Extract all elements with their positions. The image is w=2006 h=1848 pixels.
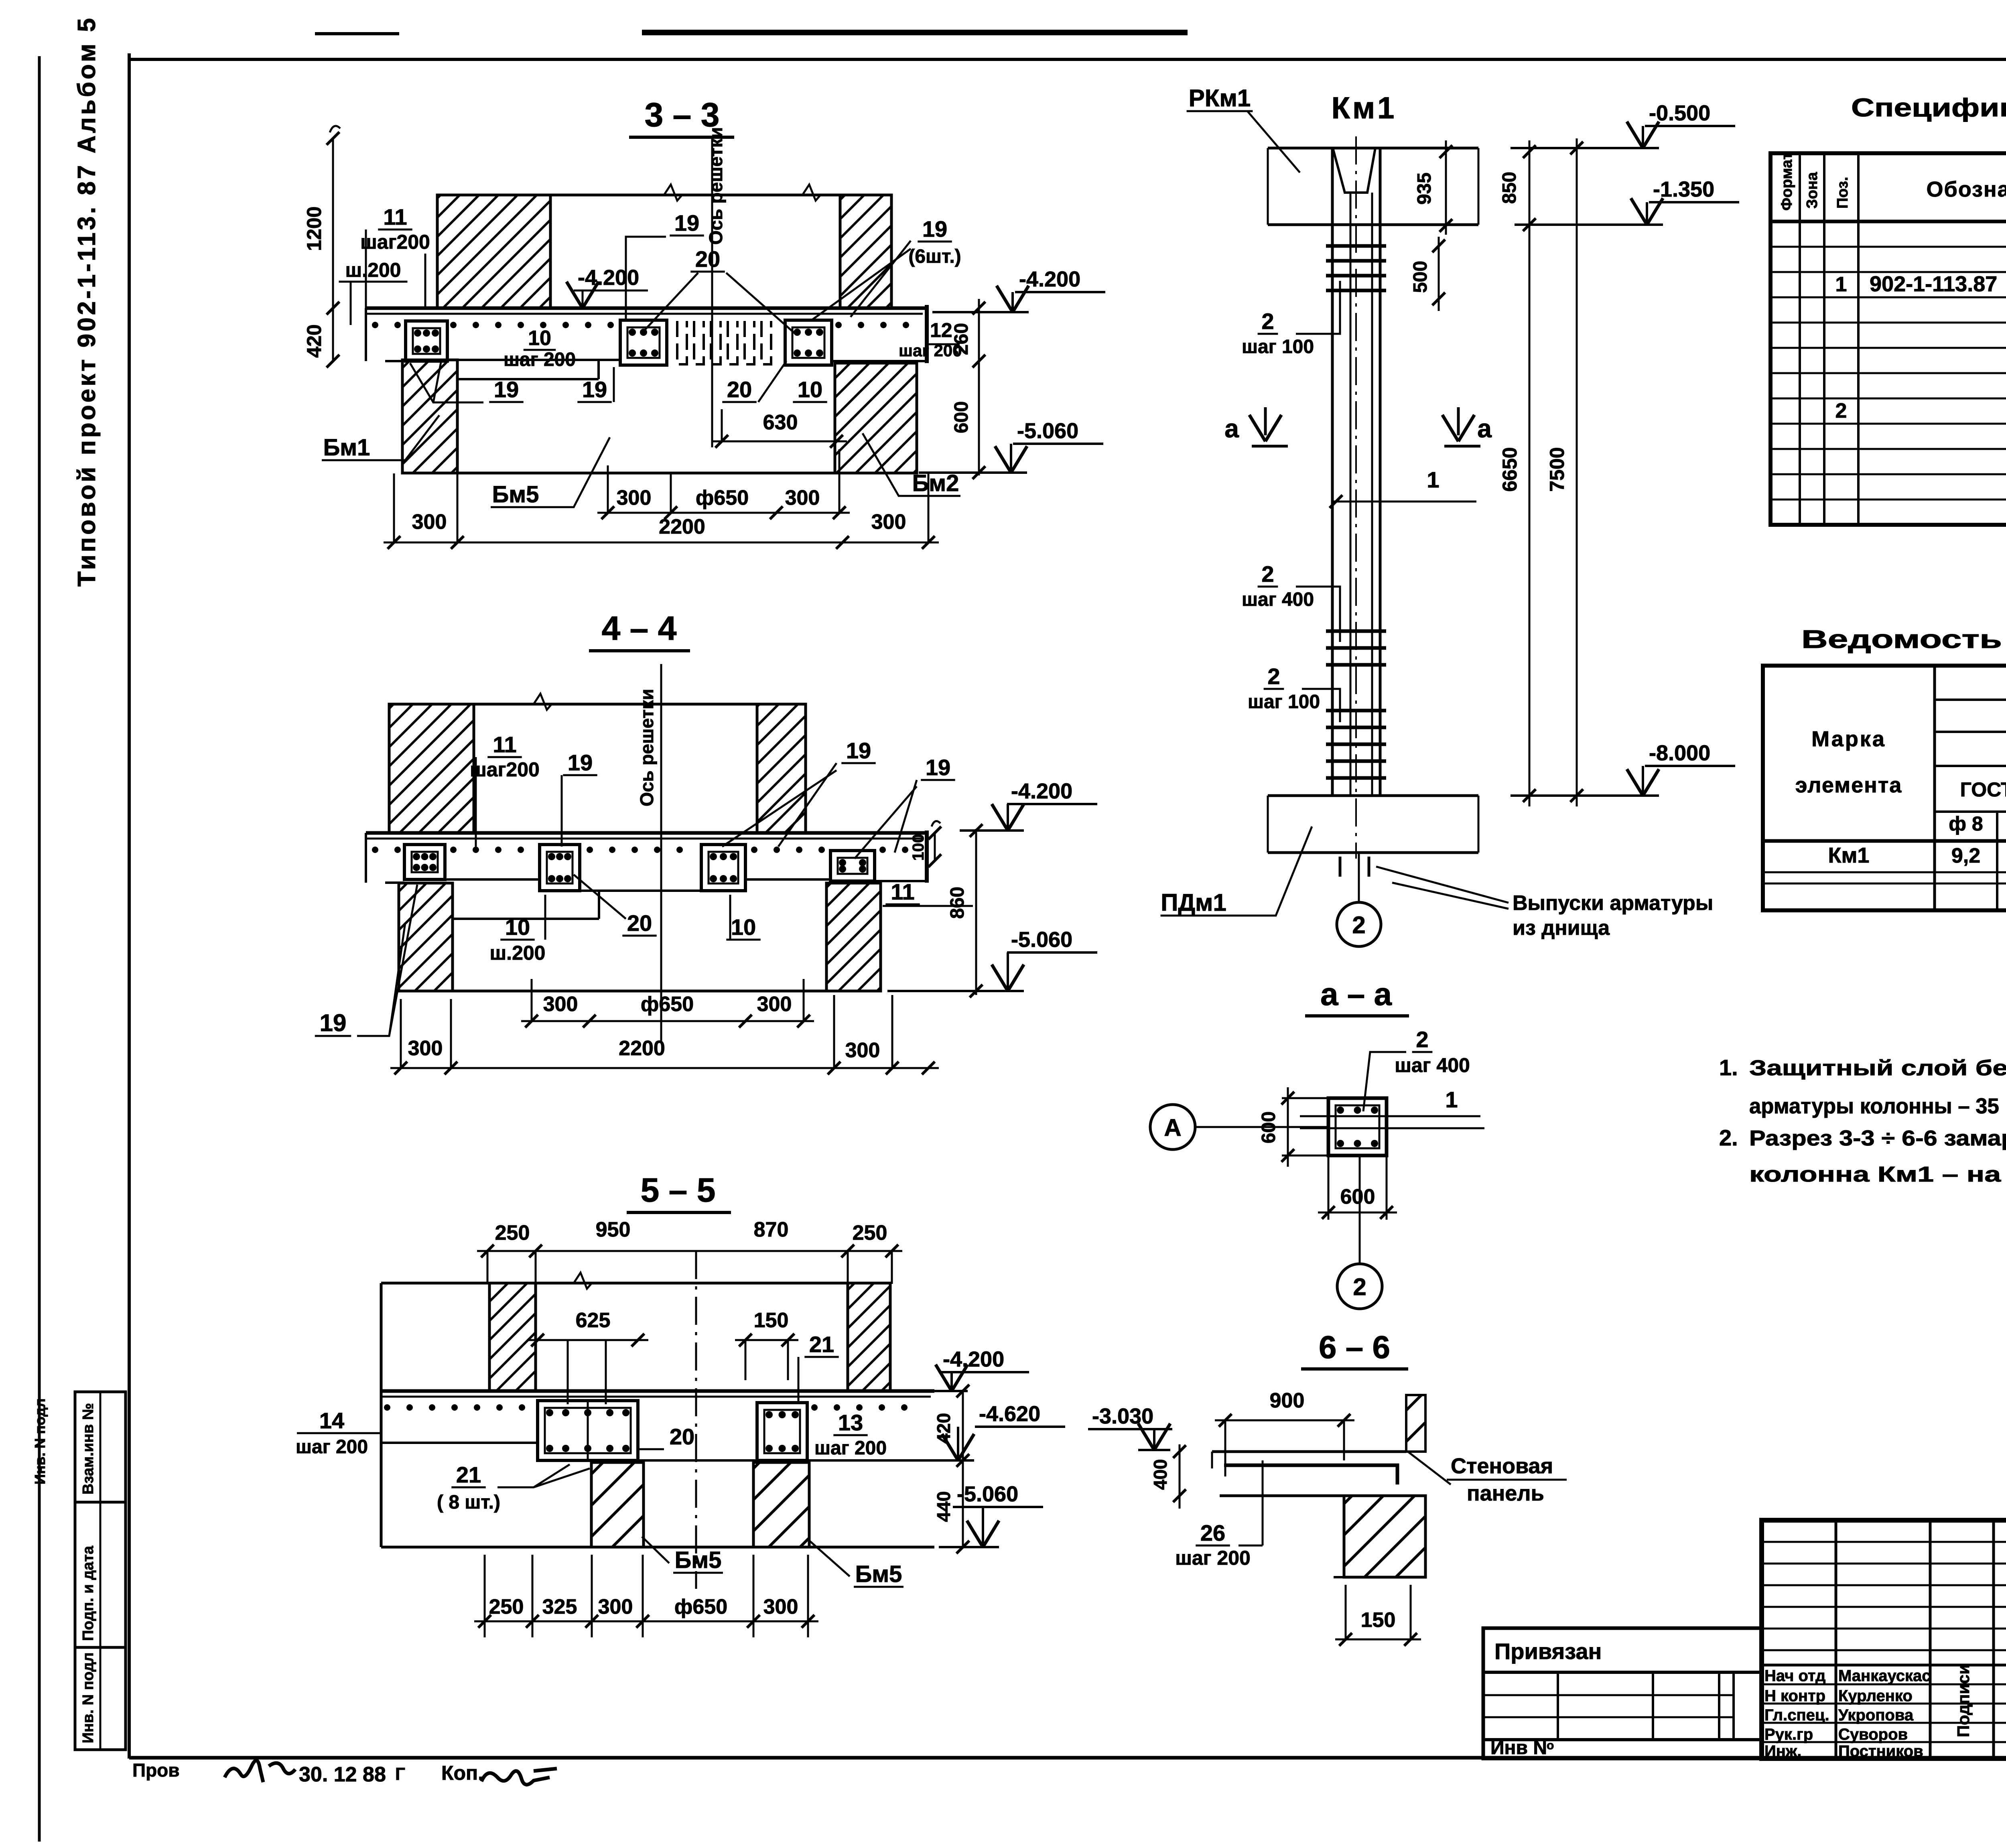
- svg-text:20: 20: [695, 246, 720, 272]
- svg-text:Постников: Постников: [1838, 1742, 1923, 1760]
- svg-text:420: 420: [303, 324, 325, 357]
- svg-text:300: 300: [598, 1595, 633, 1619]
- svg-text:950: 950: [596, 1218, 631, 1241]
- bottom slab: [1268, 794, 1478, 797]
- svg-text:300: 300: [412, 510, 447, 534]
- slab rebar dots: [372, 322, 378, 328]
- svg-text:ф 8: ф 8: [1949, 812, 1983, 835]
- svg-text:300: 300: [408, 1037, 443, 1060]
- right wall pier hatch: [757, 704, 806, 833]
- svg-text:10: 10: [798, 377, 822, 402]
- svg-text:1200: 1200: [303, 206, 325, 251]
- svg-text:Ведомость: Ведомость: [1801, 625, 2002, 654]
- svg-text:10: 10: [505, 914, 530, 940]
- svg-text:150: 150: [754, 1309, 789, 1332]
- svg-text:Бм2: Бм2: [912, 470, 959, 496]
- svg-text:панель: панель: [1467, 1481, 1544, 1505]
- lower support hatches: [399, 883, 453, 991]
- axis lines through square: [1300, 1115, 1480, 1117]
- svg-text:Стеновая: Стеновая: [1451, 1454, 1553, 1478]
- svg-text:1: 1: [1835, 273, 1847, 296]
- column cross-section square: [1328, 1098, 1387, 1156]
- slab top chord: [366, 307, 927, 310]
- svg-text:шаг 400: шаг 400: [1395, 1054, 1470, 1076]
- upper pier hatches: [489, 1283, 536, 1391]
- svg-text:ф650: ф650: [674, 1595, 727, 1619]
- svg-text:600: 600: [951, 401, 972, 433]
- lower support left hatch: [402, 360, 457, 473]
- title block outer: [1762, 1520, 2006, 1759]
- svg-text:А: А: [1164, 1114, 1181, 1141]
- grate slot dashed bars: [677, 321, 687, 364]
- svg-text:20: 20: [727, 377, 752, 402]
- stirrup cage left: [406, 321, 447, 361]
- column body: [1331, 148, 1334, 796]
- drawing frame: [128, 53, 131, 1759]
- svg-text:21: 21: [456, 1462, 481, 1487]
- svg-text:5 – 5: 5 – 5: [641, 1171, 716, 1209]
- svg-text:шаг 200: шаг 200: [1175, 1547, 1251, 1569]
- svg-text:6 – 6: 6 – 6: [1319, 1329, 1390, 1365]
- svg-text:Зона: Зона: [1804, 172, 1821, 209]
- svg-text:шаг 400: шаг 400: [1242, 589, 1314, 610]
- svg-text:( 8 шт.): ( 8 шт.): [437, 1492, 500, 1513]
- svg-text:20: 20: [627, 910, 652, 936]
- axis line: Ось решетки: [711, 138, 713, 447]
- svg-text:900: 900: [1270, 1389, 1305, 1412]
- slab bottom segments: [385, 881, 404, 884]
- svg-text:Спецификация: Спецификация: [1851, 93, 2006, 122]
- svg-text:Привязан: Привязан: [1494, 1639, 1602, 1664]
- svg-text:2200: 2200: [619, 1037, 665, 1060]
- svg-text:625: 625: [576, 1309, 611, 1332]
- left wall pier hatch: [437, 195, 550, 308]
- svg-text:150: 150: [1361, 1608, 1396, 1632]
- top slab: [1268, 147, 1478, 150]
- break marks on top edge: [664, 185, 682, 201]
- svg-text:300: 300: [785, 486, 820, 510]
- wall above slab hatch: [1406, 1395, 1425, 1452]
- svg-text:из днища: из днища: [1513, 916, 1610, 940]
- bottom edge: [402, 472, 917, 475]
- circle 2 below: [1359, 1156, 1361, 1264]
- margin stamp boxes: [75, 1392, 126, 1502]
- svg-text:11: 11: [383, 204, 407, 229]
- inner step lines: [457, 378, 599, 380]
- svg-text:6650: 6650: [1498, 447, 1521, 491]
- svg-text:Бм5: Бм5: [492, 481, 539, 508]
- lower support right hatch: [835, 363, 917, 473]
- svg-text:2: 2: [1352, 912, 1365, 938]
- svg-text:-5.060: -5.060: [1017, 419, 1078, 443]
- circle A: [1150, 1105, 1195, 1149]
- svg-text:2: 2: [1835, 399, 1847, 422]
- slab chord: [366, 831, 927, 835]
- slab bottom edges: [385, 360, 406, 362]
- svg-text:Коп.: Коп.: [441, 1762, 483, 1784]
- dim 400: [1179, 1444, 1181, 1509]
- svg-text:шаг 100: шаг 100: [1242, 336, 1314, 357]
- svg-text:Укропова: Укропова: [1838, 1706, 1914, 1724]
- steel table grid: [1763, 666, 2006, 910]
- svg-text:935: 935: [1414, 173, 1435, 205]
- dim 860: [975, 829, 977, 995]
- svg-text:Обозначение: Обозначение: [1926, 177, 2006, 201]
- svg-text:19: 19: [494, 377, 519, 402]
- svg-text:19: 19: [320, 1009, 347, 1036]
- svg-text:Ось решетки: Ось решетки: [705, 127, 726, 245]
- rebar with hook: [1224, 1465, 1397, 1484]
- svg-text:Инж.: Инж.: [1764, 1742, 1801, 1760]
- svg-text:Подп. и дата: Подп. и дата: [80, 1545, 97, 1641]
- rebar stubs below slab: [1339, 857, 1342, 877]
- wall below slab hatch: [1344, 1496, 1425, 1577]
- svg-text:Марка: Марка: [1811, 727, 1886, 751]
- svg-text:Выпуски арматуры: Выпуски арматуры: [1513, 892, 1713, 915]
- svg-text:2: 2: [1261, 561, 1274, 587]
- svg-text:Ось решетки: Ось решетки: [636, 689, 657, 806]
- svg-text:Инв. N подл: Инв. N подл: [32, 1398, 48, 1484]
- svg-text:19: 19: [582, 377, 607, 402]
- axis vertical: [695, 1251, 697, 1589]
- svg-text:шаг 200: шаг 200: [504, 349, 576, 370]
- svg-text:-5.060: -5.060: [957, 1482, 1018, 1506]
- svg-text:ф650: ф650: [641, 993, 694, 1016]
- left grid rows: [1762, 1541, 2006, 1543]
- svg-text:250: 250: [853, 1221, 887, 1245]
- svg-text:870: 870: [754, 1218, 789, 1241]
- svg-text:Курленко: Курленко: [1838, 1687, 1913, 1705]
- svg-text:Нач отд: Нач отд: [1764, 1667, 1825, 1685]
- svg-text:10: 10: [731, 914, 756, 940]
- svg-text:11: 11: [891, 879, 914, 904]
- svg-text:Инв N: Инв N: [1490, 1737, 1547, 1759]
- svg-text:ГОСТ 5781-82*: ГОСТ 5781-82*: [1960, 778, 2006, 801]
- svg-text:260: 260: [951, 323, 972, 355]
- svg-text:а: а: [1477, 414, 1492, 443]
- svg-text:19: 19: [674, 210, 699, 236]
- svg-text:630: 630: [763, 411, 798, 434]
- svg-text:-4.200: -4.200: [578, 266, 639, 290]
- svg-text:Гл.спец.: Гл.спец.: [1764, 1706, 1829, 1724]
- svg-text:400: 400: [1150, 1459, 1171, 1490]
- svg-text:Км1: Км1: [1332, 91, 1397, 125]
- svg-text:Манкаускас: Манкаускас: [1838, 1667, 1931, 1685]
- svg-text:600: 600: [1258, 1111, 1279, 1143]
- svg-text:1: 1: [1427, 467, 1439, 492]
- svg-text:Рук.гр: Рук.гр: [1764, 1726, 1813, 1743]
- stirrup ticks bottom (шаг 100): [1326, 709, 1386, 713]
- inner step lines: [453, 918, 599, 920]
- svg-text:Типовой проект 902-1-113. 87: Типовой проект 902-1-113. 87 Альбом 5: [73, 16, 101, 587]
- axis: Ось решетки: [660, 664, 662, 1043]
- svg-text:ш.200: ш.200: [490, 942, 546, 964]
- svg-text:902-1-113.87: 902-1-113.87: [1870, 272, 1997, 296]
- svg-text:11: 11: [493, 732, 516, 757]
- svg-text:19: 19: [568, 750, 593, 775]
- svg-text:Формат: Формат: [1779, 152, 1795, 211]
- svg-text:19: 19: [926, 755, 950, 780]
- svg-text:300: 300: [757, 993, 792, 1016]
- svg-text:шаг 200: шаг 200: [814, 1438, 887, 1459]
- svg-text:860: 860: [947, 887, 968, 919]
- svg-text:300: 300: [543, 993, 578, 1016]
- column socket notch: [1333, 148, 1375, 193]
- stirrup ticks top (шаг 100): [1326, 244, 1386, 248]
- svg-text:14: 14: [319, 1408, 344, 1433]
- svg-text:(6шт.): (6шт.): [908, 246, 961, 267]
- main outline: [381, 1282, 890, 1285]
- dim 420 440: [962, 1391, 964, 1547]
- svg-text:Разрез 3-3 ÷ 6-6 замаркированы: Разрез 3-3 ÷ 6-6 замаркированы на листе …: [1749, 1126, 2006, 1150]
- svg-text:10: 10: [528, 327, 551, 350]
- svg-text:2.: 2.: [1719, 1125, 1738, 1150]
- stirrup cage middle: [620, 320, 667, 365]
- svg-text:2: 2: [1261, 309, 1274, 334]
- svg-text:Подписи: Подписи: [1954, 1664, 1973, 1737]
- svg-text:4 – 4: 4 – 4: [602, 609, 677, 647]
- svg-text:Защитный слой бетона для рабоч: Защитный слой бетона для рабочей: [1749, 1056, 2006, 1080]
- svg-text:300: 300: [617, 486, 652, 510]
- stirrup cages: [404, 845, 445, 879]
- svg-text:-8.000: -8.000: [1649, 741, 1710, 765]
- svg-text:ф650: ф650: [696, 486, 749, 510]
- spec table grid: [1770, 153, 2006, 525]
- left small grid columns: [1835, 1520, 1837, 1759]
- svg-text:26: 26: [1200, 1520, 1225, 1545]
- stirrup ticks middle (шаг 400): [1326, 630, 1386, 633]
- svg-text:Взам.инв №: Взам.инв №: [80, 1403, 97, 1495]
- svg-text:12: 12: [930, 319, 952, 341]
- svg-text:440: 440: [933, 1491, 954, 1522]
- slab chord: [381, 1389, 934, 1393]
- svg-text:Км1: Км1: [1828, 843, 1870, 867]
- svg-text:арматуры колонны – 35 мм.: арматуры колонны – 35 мм.: [1749, 1094, 2006, 1118]
- svg-text:шаг200: шаг200: [360, 231, 430, 253]
- svg-text:о: о: [1547, 1739, 1554, 1752]
- svg-text:-3.030: -3.030: [1092, 1404, 1153, 1428]
- svg-text:19: 19: [846, 738, 871, 763]
- left wall pier hatch: [389, 704, 474, 833]
- svg-text:9,2: 9,2: [1951, 844, 1980, 867]
- svg-text:600: 600: [1340, 1185, 1375, 1208]
- svg-text:Суворов: Суворов: [1838, 1726, 1908, 1743]
- svg-text:шаг 100: шаг 100: [1248, 691, 1320, 713]
- svg-text:-4.200: -4.200: [943, 1347, 1004, 1371]
- svg-text:-4.620: -4.620: [979, 1402, 1040, 1426]
- svg-text:-4.200: -4.200: [1011, 779, 1072, 803]
- axis circle 2: [1358, 853, 1360, 903]
- svg-text:ПДм1: ПДм1: [1161, 889, 1226, 916]
- svg-text:2: 2: [1416, 1027, 1428, 1052]
- dim 100: [934, 833, 936, 861]
- dim 600 vertical: [1287, 1087, 1289, 1167]
- slab: [1212, 1450, 1406, 1453]
- svg-text:Г: Г: [395, 1764, 405, 1784]
- svg-text:колонна Км1 – на листе 36.: колонна Км1 – на листе 36.: [1749, 1162, 2006, 1186]
- svg-text:30. 12 88: 30. 12 88: [299, 1763, 386, 1786]
- svg-text:элемента: элемента: [1795, 773, 1902, 797]
- svg-text:Н контр: Н контр: [1764, 1687, 1825, 1705]
- svg-text:325: 325: [542, 1595, 577, 1619]
- svg-text:1.: 1.: [1719, 1055, 1738, 1080]
- svg-text:2: 2: [1353, 1273, 1366, 1300]
- dim 6650: [1529, 140, 1531, 806]
- svg-text:20: 20: [670, 1424, 694, 1449]
- svg-text:-5.060: -5.060: [1011, 928, 1072, 952]
- right wall pier hatch: [840, 195, 891, 308]
- svg-text:500: 500: [1410, 261, 1431, 293]
- svg-text:850: 850: [1499, 172, 1520, 204]
- svg-text:250: 250: [489, 1595, 524, 1619]
- svg-text:Бм5: Бм5: [855, 1561, 902, 1587]
- svg-text:шаг 200: шаг 200: [296, 1436, 368, 1458]
- stirrup cage right: [757, 1403, 807, 1460]
- svg-text:ш.200: ш.200: [345, 259, 401, 281]
- svg-text:13: 13: [838, 1410, 863, 1435]
- svg-text:шаг200: шаг200: [470, 758, 540, 781]
- dim 1200/420 left: [332, 138, 334, 361]
- slab bottom segments: [381, 1442, 538, 1444]
- svg-text:Поз.: Поз.: [1834, 177, 1851, 209]
- svg-text:21: 21: [809, 1332, 834, 1357]
- dim 7500: [1576, 138, 1578, 806]
- svg-text:Бм5: Бм5: [675, 1547, 722, 1573]
- scan smudge top: [642, 30, 1188, 35]
- svg-text:Бм1: Бм1: [323, 435, 370, 461]
- svg-text:300: 300: [871, 510, 906, 534]
- svg-text:250: 250: [495, 1221, 530, 1245]
- svg-text:2200: 2200: [659, 515, 705, 538]
- svg-text:Инв. N подл: Инв. N подл: [80, 1652, 97, 1743]
- upper wall outline: [437, 194, 891, 197]
- svg-text:а – а: а – а: [1320, 976, 1392, 1012]
- wide stirrup cage left-center: [538, 1401, 638, 1460]
- svg-text:РКм1: РКм1: [1189, 85, 1251, 112]
- svg-text:300: 300: [763, 1595, 798, 1619]
- svg-text:2: 2: [1267, 664, 1280, 689]
- lower hatched blocks: [591, 1462, 644, 1547]
- privyazan table: [1483, 1628, 1762, 1759]
- sheet edge line left: [38, 56, 41, 1842]
- stirrup cage right: [785, 320, 832, 365]
- svg-text:а: а: [1224, 414, 1239, 443]
- svg-text:100: 100: [910, 834, 927, 861]
- svg-text:300: 300: [845, 1039, 880, 1062]
- svg-text:19: 19: [922, 216, 947, 242]
- dim 935 850 500: [1445, 140, 1447, 235]
- upper wall outline: [389, 703, 806, 706]
- svg-text:7500: 7500: [1546, 447, 1568, 491]
- svg-text:1: 1: [1445, 1087, 1458, 1112]
- svg-text:Пров: Пров: [132, 1760, 180, 1781]
